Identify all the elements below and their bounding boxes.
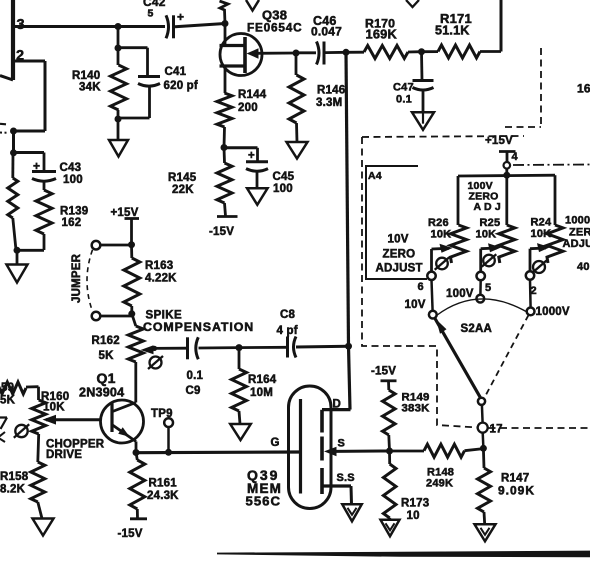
svg-text:5: 5	[485, 282, 491, 294]
svg-text:C41: C41	[165, 66, 187, 78]
svg-text:100: 100	[63, 174, 83, 186]
svg-text:ADJU: ADJU	[563, 238, 590, 250]
svg-text:Q1: Q1	[97, 370, 116, 386]
svg-text:100: 100	[273, 183, 293, 195]
svg-text:R146: R146	[317, 85, 345, 97]
svg-text:+: +	[177, 10, 184, 24]
svg-text:-15V: -15V	[371, 366, 396, 378]
svg-text:1000V: 1000V	[536, 306, 570, 318]
svg-text:C42: C42	[143, 0, 166, 9]
svg-text:40: 40	[577, 261, 590, 273]
svg-text:34K: 34K	[79, 82, 101, 94]
svg-text:5K: 5K	[99, 350, 115, 362]
svg-text:51.1K: 51.1K	[435, 24, 470, 38]
svg-text:S2AA: S2AA	[461, 323, 492, 335]
svg-text:10V: 10V	[388, 234, 409, 246]
svg-text:+15V: +15V	[485, 135, 513, 147]
svg-text:9.09K: 9.09K	[498, 484, 535, 498]
svg-text:0.1: 0.1	[396, 94, 412, 106]
svg-text:JUMPER: JUMPER	[71, 253, 83, 303]
svg-text:COMPENSATION: COMPENSATION	[143, 320, 254, 334]
svg-text:R25: R25	[480, 217, 501, 229]
svg-text:22K: 22K	[172, 184, 194, 196]
svg-text:383K: 383K	[402, 403, 431, 415]
svg-text:C47: C47	[393, 82, 414, 94]
svg-text:R158: R158	[0, 471, 29, 483]
svg-text:59: 59	[1, 382, 14, 394]
svg-text:S.S: S.S	[337, 472, 355, 484]
svg-text:R144: R144	[238, 89, 267, 101]
svg-text:C43: C43	[60, 162, 82, 174]
svg-text:-15V: -15V	[209, 226, 234, 238]
svg-text:1000: 1000	[565, 215, 590, 227]
svg-text:10K: 10K	[476, 229, 497, 241]
svg-text:10K: 10K	[43, 402, 65, 414]
svg-text:10M: 10M	[250, 387, 273, 399]
svg-text:8.2K: 8.2K	[0, 484, 26, 496]
svg-text:C8: C8	[280, 309, 296, 321]
svg-text:ZERO: ZERO	[383, 249, 416, 261]
svg-text:DRIVE: DRIVE	[46, 449, 82, 461]
svg-text:5: 5	[148, 8, 154, 20]
svg-text:A4: A4	[368, 170, 382, 182]
svg-text:4.22K: 4.22K	[145, 273, 177, 285]
svg-text:R145: R145	[168, 172, 197, 184]
svg-text:C9: C9	[186, 385, 201, 397]
svg-text:620 pf: 620 pf	[164, 80, 198, 92]
svg-text:5K: 5K	[0, 395, 16, 407]
svg-text:R163: R163	[145, 260, 173, 272]
svg-text:10K: 10K	[431, 229, 452, 241]
svg-text:ADJUST: ADJUST	[376, 263, 423, 275]
svg-text:FE0654C: FE0654C	[247, 21, 302, 35]
svg-text:R24: R24	[531, 217, 552, 229]
svg-text:0.1: 0.1	[187, 370, 204, 382]
svg-text:200: 200	[238, 102, 258, 114]
svg-text:169K: 169K	[366, 27, 398, 42]
svg-text:10: 10	[407, 510, 420, 522]
svg-text:R140: R140	[72, 70, 100, 82]
svg-text:0.047: 0.047	[311, 25, 342, 39]
svg-text:10V: 10V	[405, 299, 426, 311]
svg-text:6: 6	[418, 281, 424, 293]
svg-text:100V: 100V	[446, 288, 474, 300]
svg-text:R139: R139	[60, 206, 88, 218]
svg-text:3.3M: 3.3M	[316, 97, 342, 109]
svg-text:16: 16	[577, 82, 590, 96]
svg-text:C45: C45	[273, 171, 295, 183]
svg-text:R162: R162	[92, 335, 120, 347]
svg-text:A D J: A D J	[474, 201, 501, 213]
svg-text:249K: 249K	[426, 478, 453, 490]
svg-text:R26: R26	[428, 217, 449, 229]
svg-text:4: 4	[512, 151, 519, 163]
svg-text:24.3K: 24.3K	[147, 490, 179, 502]
svg-text:R161: R161	[149, 478, 178, 490]
svg-text:2N3904: 2N3904	[79, 386, 124, 400]
svg-text:R173: R173	[401, 498, 429, 510]
svg-text:-15V: -15V	[118, 528, 143, 540]
svg-text:162: 162	[62, 217, 82, 229]
svg-text:10K: 10K	[531, 228, 552, 240]
svg-text:+: +	[248, 150, 255, 162]
svg-text:4 pf: 4 pf	[277, 325, 298, 337]
svg-text:S: S	[338, 438, 346, 450]
svg-text:R164: R164	[248, 374, 277, 386]
svg-text:G: G	[271, 437, 280, 449]
svg-text:556C: 556C	[246, 494, 282, 509]
svg-text:17: 17	[490, 424, 503, 436]
svg-text:ZER: ZER	[569, 227, 590, 239]
